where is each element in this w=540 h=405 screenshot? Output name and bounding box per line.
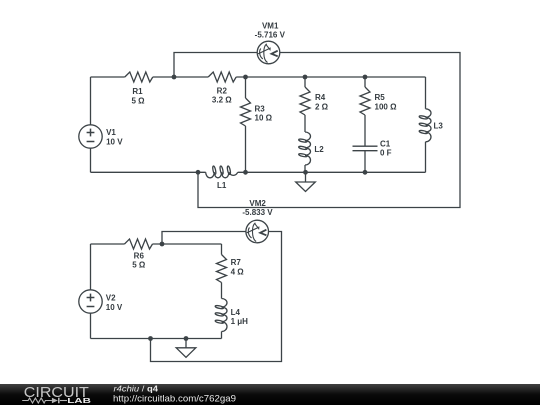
svg-text:4 Ω: 4 Ω <box>231 267 245 276</box>
svg-text:LAB: LAB <box>67 396 91 405</box>
svg-text:L4: L4 <box>231 308 241 317</box>
svg-text:5 Ω: 5 Ω <box>132 261 146 270</box>
svg-text:r4chiu / q4: r4chiu / q4 <box>114 384 159 393</box>
svg-text:L2: L2 <box>314 145 324 154</box>
svg-text:R5: R5 <box>375 93 386 102</box>
svg-text:100 Ω: 100 Ω <box>375 103 398 112</box>
svg-text:VM1: VM1 <box>262 21 279 30</box>
svg-text:10 V: 10 V <box>106 303 123 312</box>
svg-text:R4: R4 <box>315 93 326 102</box>
svg-text:http://circuitlab.com/c762ga9: http://circuitlab.com/c762ga9 <box>113 394 236 404</box>
svg-text:VM2: VM2 <box>249 199 266 208</box>
svg-text:3.2 Ω: 3.2 Ω <box>212 96 232 105</box>
svg-text:L1: L1 <box>217 181 227 190</box>
svg-text:2 Ω: 2 Ω <box>315 103 329 112</box>
svg-text:R3: R3 <box>255 105 266 114</box>
svg-text:R1: R1 <box>132 87 143 96</box>
svg-text:10 V: 10 V <box>106 137 123 146</box>
svg-text:R2: R2 <box>217 87 228 96</box>
svg-text:0 F: 0 F <box>380 148 392 157</box>
svg-text:V2: V2 <box>106 294 116 303</box>
svg-text:R7: R7 <box>231 258 242 267</box>
svg-text:10 Ω: 10 Ω <box>255 113 273 122</box>
svg-text:-5.833 V: -5.833 V <box>242 208 273 217</box>
svg-text:-5.716 V: -5.716 V <box>255 30 286 39</box>
svg-text:V1: V1 <box>106 128 116 137</box>
svg-text:1 μH: 1 μH <box>231 317 249 326</box>
svg-text:L3: L3 <box>434 121 444 130</box>
svg-text:5 Ω: 5 Ω <box>131 96 145 105</box>
svg-text:R6: R6 <box>134 252 145 261</box>
